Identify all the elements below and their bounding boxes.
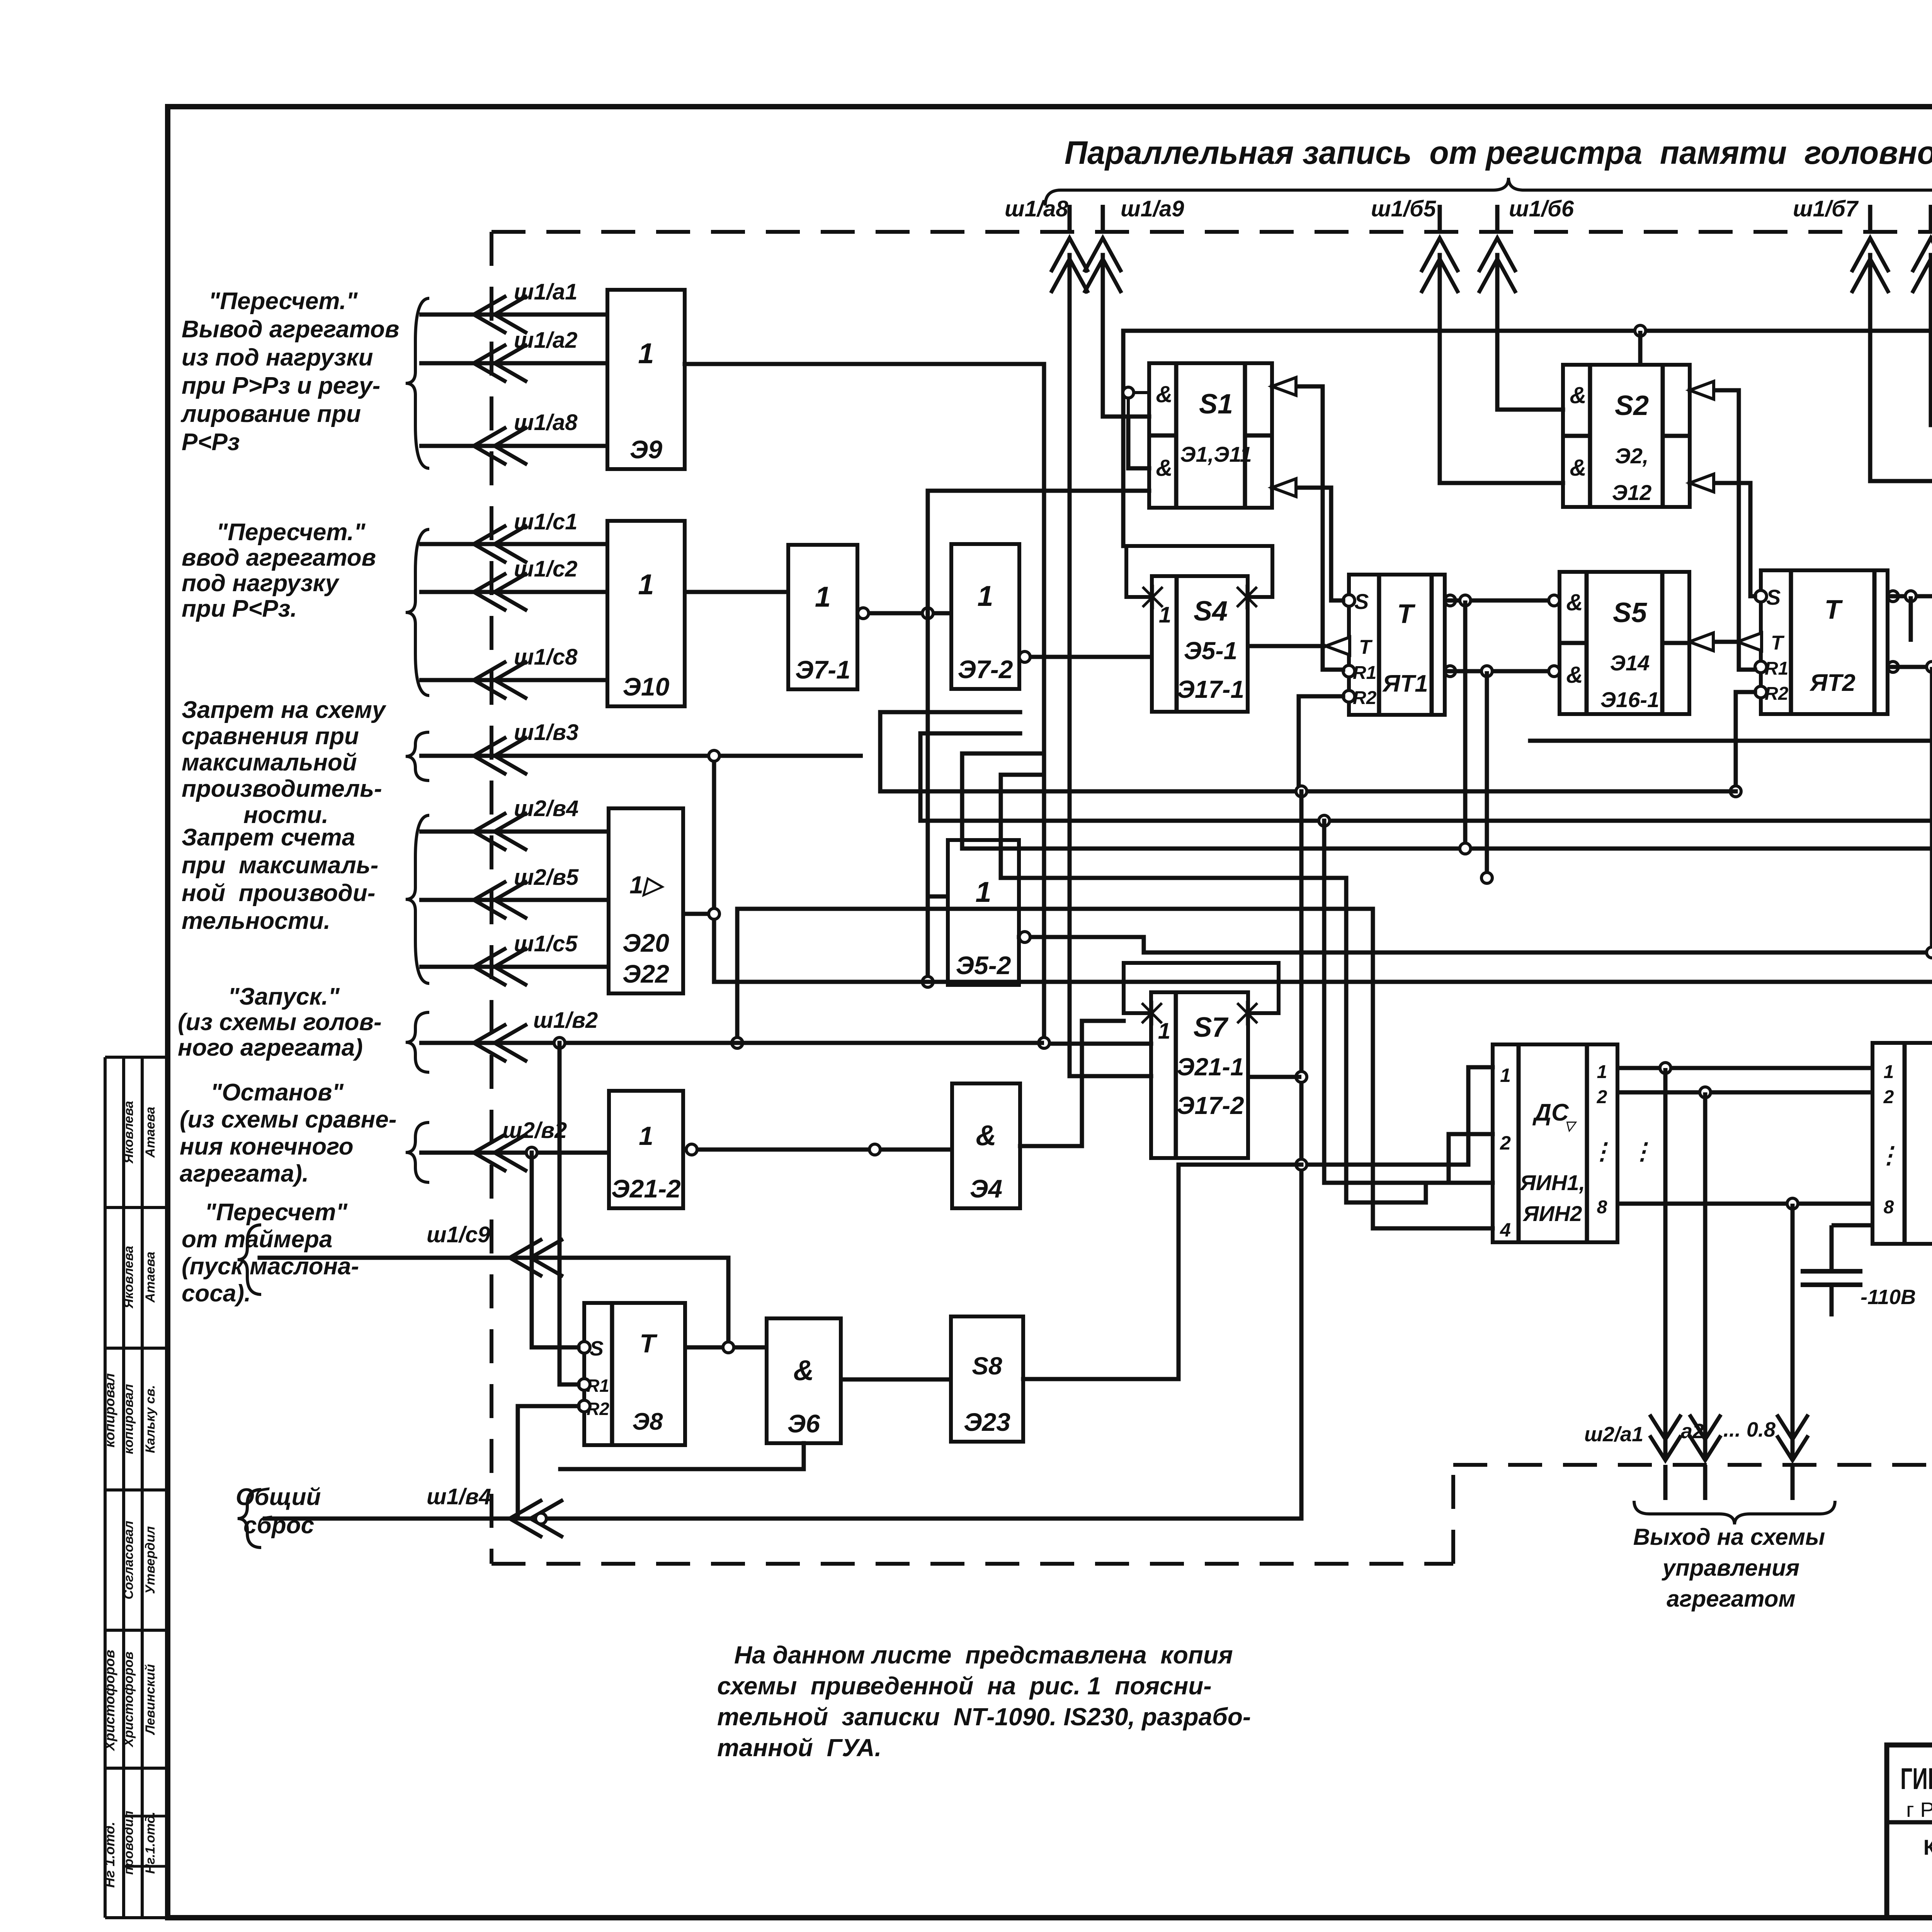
brace group 4 [406, 815, 429, 983]
svg-text:1: 1 [1597, 1062, 1607, 1082]
svg-text:Т: Т [639, 1329, 658, 1358]
logic block Э4 [952, 1083, 1020, 1208]
svg-text:Э6: Э6 [787, 1409, 820, 1438]
logic block Э7-2 [951, 544, 1019, 689]
wire trunk t0 upper right [1530, 739, 1932, 743]
svg-text:&: & [1570, 455, 1586, 481]
svg-text:Т: Т [1397, 599, 1416, 629]
svg-text:ш1/в4: ш1/в4 [427, 1484, 491, 1509]
svg-text:1: 1 [977, 580, 993, 612]
node: Запуск line joins S7 input [1039, 1037, 1049, 1048]
wire: Э9 output to S7 input 1 [685, 364, 1151, 1044]
signature table [104, 1057, 107, 1918]
wire: ш1/б7 into S3 lower AND [1870, 255, 1932, 481]
node Э21-2 output [686, 1144, 697, 1155]
svg-text:Утвердил: Утвердил [143, 1526, 158, 1594]
wire: ш1/а9 into S1 [1103, 255, 1149, 417]
wire: Э20 output [683, 912, 714, 916]
title block frame [1887, 1745, 1932, 1918]
logic block Э20/Э22 [609, 808, 683, 993]
svg-text:копировал: копировал [102, 1373, 117, 1447]
pin nodes S5 [1549, 595, 1560, 606]
wire: ш1/а8 down to S7 input 2 [1070, 255, 1151, 1076]
decoder block ДС (ЯИН1,ЯИН2) [1493, 1044, 1617, 1242]
svg-text:ш2/в5: ш2/в5 [514, 865, 579, 890]
wire: drop to trunk3 [1463, 600, 1468, 849]
svg-text:1: 1 [975, 876, 991, 908]
wire: Запуск branch to Э8 R1 [560, 1043, 578, 1384]
node pin1 [1660, 1063, 1671, 1073]
wire: ДС to counter pin 8 [1617, 1202, 1872, 1206]
svg-text:Э8: Э8 [632, 1408, 663, 1435]
wire: ДС to counter pin 2 [1617, 1090, 1872, 1095]
svg-text:от таймера: от таймера [182, 1226, 332, 1253]
connector arrow ш1/в2 [419, 1041, 1044, 1045]
connector arrow ш1/б6 [1495, 205, 1500, 232]
svg-text:"Пересчет.": "Пересчет." [216, 519, 366, 546]
connector arrow ш1/б8 [1929, 205, 1932, 232]
capacitor -110В [1830, 1225, 1834, 1271]
svg-text:проводил: проводил [121, 1811, 136, 1875]
wire bundle L3 [1346, 878, 1493, 1202]
wire trunk t4 [1001, 775, 1346, 878]
svg-text:Э10: Э10 [623, 672, 670, 701]
wire: Э7-2 output to S4 input [1025, 655, 1152, 659]
node trunk4 [1481, 872, 1492, 883]
wire: ДС to counter pin 1 [1617, 1066, 1872, 1070]
svg-text:максимальной: максимальной [182, 749, 357, 776]
svg-text:"Пересчет.": "Пересчет." [209, 288, 358, 315]
svg-text:агрегатом: агрегатом [1667, 1586, 1796, 1612]
wire: Э21-2 output to Э4 [683, 1148, 952, 1152]
svg-text:Христофоров: Христофоров [121, 1651, 136, 1748]
connector arrow ш1/а8 [419, 444, 607, 448]
svg-text:&: & [1570, 382, 1586, 408]
svg-text:Э7-2: Э7-2 [958, 655, 1013, 684]
svg-text:⋮: ⋮ [1631, 1138, 1654, 1164]
wire: S7 output [1248, 1075, 1301, 1079]
svg-text:S8: S8 [972, 1352, 1002, 1380]
svg-text:тельной записки NТ-1090. IS2: тельной записки NТ-1090. IS230, разрабо- [717, 1703, 1251, 1731]
brace group 2 [406, 529, 429, 696]
svg-text:ш1/б7: ш1/б7 [1793, 196, 1859, 221]
svg-text:из под нагрузки: из под нагрузки [182, 344, 373, 371]
wire: S1 lower return to ЯТ1 S [1272, 488, 1343, 600]
svg-text:(из схемы сравне-: (из схемы сравне- [180, 1106, 396, 1133]
svg-text:ш1/с2: ш1/с2 [514, 556, 577, 582]
wire: Э10 output to Э7-1 [685, 590, 788, 594]
node on ЯТ1 upper output [1460, 595, 1471, 606]
wire: Э5-2 output to trunk6 [1019, 937, 1144, 952]
wire: ш1/б5 into S2 lower AND [1440, 255, 1563, 483]
svg-text:ш1/а9: ш1/а9 [1121, 196, 1184, 221]
svg-text:лирование при: лирование при [180, 401, 361, 427]
connector arrow ш2/в4 [419, 830, 609, 834]
wire: bundle L1 branch to ДС pin 1 [1301, 1067, 1493, 1165]
connector arrow ш1/с8 [419, 678, 607, 682]
svg-text:ЯТ2: ЯТ2 [1809, 670, 1855, 696]
wire: pin8 drop to ш2/а8 [1791, 1204, 1795, 1458]
logic block Э6 [767, 1318, 841, 1443]
svg-text:ввод агрегатов: ввод агрегатов [182, 544, 376, 571]
node at Э7-1 output [858, 608, 869, 619]
brace: выход на схемы [1634, 1501, 1835, 1524]
svg-text:при Р<Рз.: при Р<Рз. [182, 595, 297, 622]
svg-text:ш1/а1: ш1/а1 [514, 279, 577, 304]
wire: riser from node to S1 lower input [928, 491, 1149, 613]
wire: top bus to S4 hat and long run [1123, 331, 1932, 546]
wire: branch to S1 lower AND [1128, 417, 1149, 468]
svg-text:ной производи-: ной производи- [182, 880, 375, 906]
svg-text:ЯИН2: ЯИН2 [1522, 1201, 1582, 1226]
logic block Э10 [607, 521, 685, 706]
logic block Э23 [951, 1316, 1023, 1442]
svg-text:Э7-1: Э7-1 [795, 655, 850, 684]
svg-text:Параллельная запись от регист: Параллельная запись от регистра памяти г… [1065, 134, 1932, 171]
wire: t5 left riser to Запуск line [735, 909, 740, 1043]
svg-text:S: S [1766, 585, 1781, 609]
connector arrow ш1/с2 [419, 590, 607, 594]
svg-text:R2: R2 [1765, 684, 1789, 704]
svg-text:Нг 1.отд.: Нг 1.отд. [102, 1821, 117, 1888]
svg-text:Э4: Э4 [970, 1174, 1002, 1203]
connector arrow ш1/с1 [419, 542, 607, 546]
svg-text:4: 4 [1500, 1219, 1511, 1241]
brace group 3 [406, 732, 429, 781]
node on Запуск line [554, 1037, 565, 1048]
svg-text:ш1/б6: ш1/б6 [1509, 196, 1574, 221]
svg-text:ш2/в2: ш2/в2 [502, 1118, 567, 1143]
svg-text:1: 1 [639, 1121, 653, 1151]
node Э4 output line [869, 1144, 880, 1155]
wire: Останов branch to Э8 S [532, 1153, 578, 1347]
node at Э7-2 output [1019, 651, 1030, 662]
svg-text:-110В: -110В [1861, 1286, 1916, 1309]
svg-text:Атаева: Атаева [143, 1252, 158, 1303]
T flip-flop ЯТ1 [1349, 575, 1445, 715]
svg-text:На данном листе представлена: На данном листе представлена копия [734, 1641, 1233, 1669]
svg-text:Атаева: Атаева [143, 1107, 158, 1158]
brace group 6 [406, 1122, 429, 1182]
svg-text:Кальку св.: Кальку св. [143, 1385, 158, 1453]
node on bus above S2 [1635, 325, 1646, 336]
connector arrow ш1/а9 [1101, 205, 1105, 232]
svg-text:ния конечного: ния конечного [180, 1133, 354, 1160]
svg-text:при Р>Рз и регу-: при Р>Рз и регу- [182, 372, 380, 399]
svg-text:Э14: Э14 [1610, 651, 1650, 675]
wire: S2 lower return to ЯТ2 S [1690, 483, 1755, 596]
wire: drop to trunk4 [1485, 671, 1489, 878]
wire: ЯТ2 outputs to S6 [1888, 591, 1898, 602]
svg-text:ного агрегата): ного агрегата) [178, 1034, 363, 1061]
svg-text:Запрет на схему: Запрет на схему [182, 697, 387, 723]
svg-text:тельности.: тельности. [182, 908, 330, 934]
wire trunk t5 [737, 907, 1373, 911]
wire: Э6 output to Э23 [841, 1378, 951, 1382]
svg-text:&: & [976, 1119, 996, 1151]
selector block S7 (Э21-1,Э17-2) with marker bracket [1151, 992, 1248, 1158]
wire trunk t1 [880, 712, 1736, 791]
connector arrow ш1/с9 [260, 1258, 728, 1342]
wire: Э4 output up to S7 hat [1020, 1021, 1124, 1146]
svg-text:Э5-2: Э5-2 [956, 951, 1011, 980]
node on сброс line [536, 1513, 546, 1524]
wire trunk t6 [1144, 951, 1932, 955]
connector arrow ш1/б5 [1438, 205, 1442, 232]
svg-text:1▷: 1▷ [629, 871, 665, 899]
node trunk1/L1 [1296, 786, 1307, 797]
wire: Общий сброс branch to Э8 R2 [518, 1406, 578, 1519]
svg-text:S5: S5 [1613, 597, 1647, 628]
node on trunk7 [922, 976, 933, 987]
svg-text:S1: S1 [1199, 389, 1233, 420]
svg-text:Э17-1: Э17-1 [1177, 675, 1244, 703]
wire: Запуск line ш1/в2 continue [560, 1041, 1044, 1045]
svg-text:T: T [1771, 632, 1785, 654]
svg-text:ш1/в2: ш1/в2 [533, 1008, 598, 1033]
logic block Э5-2 [948, 840, 1019, 985]
svg-text:Запрет счета: Запрет счета [182, 824, 355, 851]
RS selector block S2 (Э2,Э12) [1563, 365, 1690, 507]
svg-text:&: & [793, 1354, 814, 1386]
brace group 1 [406, 298, 429, 468]
arrow tails below dashed [1663, 1465, 1668, 1500]
svg-text:соса).: соса). [182, 1280, 251, 1307]
svg-text:Э20: Э20 [622, 929, 669, 957]
wire: S5 to ЯТ2 T input [1689, 640, 1738, 644]
connector arrow 0.8 [1778, 1437, 1807, 1460]
node on ш1/в3 line [709, 750, 719, 761]
svg-text:Э1,Э11: Э1,Э11 [1180, 442, 1252, 466]
node trunk3 [1460, 843, 1471, 854]
connector arrow ш1/с5 [419, 965, 609, 969]
logic block Э9 [607, 290, 685, 469]
T flip-flop Э8 [584, 1303, 685, 1445]
svg-text:КОМПРЕССОРНАЯ: КОМПРЕССОРНАЯ [1923, 1835, 1932, 1859]
svg-text:"Останов": "Останов" [211, 1079, 344, 1106]
svg-text:R1: R1 [1353, 663, 1376, 683]
svg-text:ш1/а2: ш1/а2 [514, 328, 577, 353]
wire bundle L4 [1373, 909, 1493, 1228]
node at S1 upper input [1123, 387, 1134, 398]
svg-text:Э2,: Э2, [1615, 444, 1649, 468]
svg-text:S4: S4 [1194, 596, 1228, 627]
svg-text:1: 1 [638, 568, 654, 600]
svg-text:"Запуск.": "Запуск." [228, 983, 340, 1010]
svg-text:Согласовал: Согласовал [121, 1521, 136, 1600]
svg-text:Э5-1: Э5-1 [1184, 637, 1238, 665]
node: drop to trunk6 [1927, 662, 1932, 672]
svg-text:ш1/б5: ш1/б5 [1371, 196, 1436, 221]
wire: Останов to Э21-2 [526, 1147, 537, 1158]
node trunk2 [1319, 815, 1330, 826]
svg-text:8: 8 [1597, 1197, 1607, 1218]
svg-text:1: 1 [1884, 1062, 1894, 1082]
wire trunk t7 [714, 980, 1932, 984]
logic block Э21-2 [609, 1091, 683, 1208]
wire: S1 upper return from ЯТ1 R1 [1272, 386, 1343, 670]
wire: Э6 lower loop [560, 1443, 804, 1469]
svg-text:Яковлева: Яковлева [121, 1246, 136, 1309]
svg-text:T: T [1359, 636, 1373, 658]
wire: ш1/б8 into S3 upper AND [1931, 255, 1932, 425]
wire: ЯТ2 R2 drop to trunk1 [1736, 692, 1755, 791]
wire: ЯТ1 R2 drop to trunk [1299, 696, 1343, 791]
wire: ш1/в3 branch down to Э20 output [712, 756, 716, 982]
connector arrow ш1/а1 [419, 313, 607, 317]
node Э5-2 output [1019, 932, 1030, 942]
brace group 5 [406, 1012, 429, 1072]
wire: pin2 drop to ш2/а2 [1703, 1092, 1708, 1458]
svg-text:Э21-2: Э21-2 [611, 1174, 681, 1203]
svg-text:сброс: сброс [243, 1512, 314, 1539]
title block: organization cell [1887, 1820, 1932, 1825]
node bundle L1 branch [1296, 1159, 1307, 1170]
svg-text:&: & [1566, 662, 1583, 688]
node ЯТ2 R2 on trunk1 [1730, 786, 1741, 797]
wire: S4 output to ЯТ1 T input [1248, 644, 1326, 648]
svg-text:ЯИН1,: ЯИН1, [1519, 1170, 1585, 1195]
RS selector block S1 (Э1,Э11) [1149, 363, 1272, 508]
wire: node down to Э5-2 and trunk [926, 613, 930, 982]
svg-text:ш1/с9: ш1/с9 [427, 1222, 490, 1247]
wire: Э8 output to Э6 [685, 1345, 767, 1350]
svg-text:Э21-1: Э21-1 [1177, 1053, 1244, 1081]
svg-text:сравнения при: сравнения при [182, 723, 359, 750]
connector arrow ш2/а1 [1651, 1437, 1680, 1460]
brace group 7 [238, 1225, 261, 1294]
svg-text:Э12: Э12 [1612, 480, 1652, 505]
svg-text:ЯТ1: ЯТ1 [1382, 670, 1428, 697]
svg-text:Вывод агрегатов: Вывод агрегатов [182, 316, 399, 343]
connector arrow ш2/в5 [419, 898, 609, 902]
svg-text:S: S [1354, 589, 1369, 614]
wire trunk t3 [962, 753, 1932, 849]
selector block S4 (Э5-1,Э17-1) with marker bracket [1152, 576, 1248, 712]
svg-text:1: 1 [815, 581, 831, 613]
connector arrow ш1/в3 [419, 754, 863, 758]
node pin2 [1700, 1087, 1711, 1098]
svg-text:⋮: ⋮ [1877, 1142, 1900, 1168]
svg-text:Р<Рз: Р<Рз [182, 429, 240, 456]
svg-text:"Пересчет": "Пересчет" [205, 1199, 348, 1226]
svg-text:г Ростов-на-Дону 1976г: г Ростов-на-Дону 1976г [1906, 1798, 1932, 1821]
svg-text:S: S [590, 1337, 604, 1360]
svg-text:R1: R1 [1765, 658, 1788, 679]
svg-text:ш1/а8: ш1/а8 [514, 410, 578, 435]
wire: pin1 drop to ш2/а1 [1663, 1068, 1668, 1458]
svg-text:ш1/с1: ш1/с1 [514, 509, 577, 534]
svg-text:Нг.1.отд.: Нг.1.отд. [143, 1811, 158, 1874]
wire: reset riser / bundle L1 vertical [1299, 791, 1304, 1519]
brace under title [1045, 178, 1932, 206]
node Э8 output [723, 1342, 734, 1353]
connector arrow ш1/б7 [1868, 205, 1872, 232]
svg-text:Т: Т [1825, 594, 1843, 624]
connector arrow ш1/а8 [1068, 205, 1072, 232]
svg-text:копировал: копировал [121, 1384, 136, 1454]
wire: Э7-1 output to Э7-2 [857, 611, 951, 616]
wire: S2 upper return from ЯТ2 R1 [1690, 390, 1755, 670]
wire: stub into Э5-2 [928, 895, 948, 899]
svg-text:Э16-1: Э16-1 [1600, 687, 1659, 712]
svg-text:S7: S7 [1193, 1012, 1228, 1043]
node on ЯТ2 output [1905, 591, 1916, 602]
bracket hat of S7 (Э21-1,Э17-2) [1124, 963, 1279, 1013]
wire: Э23 output up to bundle [1023, 1165, 1301, 1379]
wire trunk t2 [920, 733, 1932, 821]
svg-text:а2: а2 [1681, 1420, 1704, 1443]
brace group 8 [238, 1490, 261, 1548]
bracket hat of S4 (Э5-1,Э17-1) [1126, 546, 1272, 597]
connector arrow а2 [1690, 1437, 1720, 1460]
svg-text:(из схемы голов-: (из схемы голов- [178, 1009, 382, 1036]
wire: ш1/б6 into S2 upper AND [1497, 255, 1563, 410]
svg-text:&: & [1156, 381, 1172, 407]
RS selector block S5 (Э14,Э16-1) [1560, 572, 1689, 714]
svg-text:ш1/с8: ш1/с8 [514, 645, 578, 670]
svg-text:R2: R2 [1353, 688, 1377, 708]
svg-text:2: 2 [1883, 1087, 1894, 1107]
svg-text:Яковлева: Яковлева [121, 1101, 136, 1164]
svg-text:управления: управления [1662, 1555, 1799, 1581]
connector arrow ш1/в4 [263, 1517, 1301, 1521]
svg-text:ш1/в3: ш1/в3 [514, 720, 578, 745]
counter interface block [1872, 1043, 1932, 1244]
svg-text:... 0.8: ... 0.8 [1723, 1418, 1776, 1441]
svg-text:Э17-2: Э17-2 [1177, 1092, 1244, 1119]
wire drop into S2 top [1638, 331, 1643, 365]
svg-text:при максималь-: при максималь- [182, 852, 378, 879]
node S7 output joins L1 [1296, 1071, 1307, 1082]
svg-text:ш1/с5: ш1/с5 [514, 931, 578, 956]
dashed schematic boundary [492, 230, 1932, 234]
svg-text:производитель-: производитель- [182, 776, 382, 802]
svg-text:8: 8 [1884, 1197, 1894, 1218]
wire bundle L2 [1324, 821, 1493, 1183]
svg-text:схемы приведенной на рис. 1: схемы приведенной на рис. 1 поясни- [717, 1672, 1212, 1700]
svg-text:Э22: Э22 [622, 959, 669, 988]
node on ЯТ1 lower output [1481, 666, 1492, 677]
svg-text:S2: S2 [1615, 390, 1649, 421]
node trunk6 [1927, 947, 1932, 958]
svg-text:под нагрузку: под нагрузку [182, 570, 340, 597]
svg-text:Выход на схемы: Выход на схемы [1633, 1524, 1825, 1550]
svg-text:Э9: Э9 [630, 435, 662, 464]
node pin8 [1787, 1198, 1798, 1209]
svg-text:Э23: Э23 [964, 1408, 1010, 1436]
T flip-flop ЯТ2 [1761, 570, 1888, 714]
svg-text:ш2/а1: ш2/а1 [1584, 1423, 1643, 1446]
svg-text:2: 2 [1597, 1087, 1607, 1107]
svg-text:ш1/а8: ш1/а8 [1005, 196, 1068, 221]
svg-text:2: 2 [1500, 1132, 1511, 1154]
svg-text:ДС: ДС [1532, 1099, 1569, 1126]
svg-text:ГИПРОСТРОЙДОРМАШ: ГИПРОСТРОЙДОРМАШ [1900, 1762, 1932, 1796]
svg-text:&: & [1156, 455, 1172, 481]
svg-text:агрегата).: агрегата). [180, 1160, 309, 1187]
svg-text:1: 1 [638, 337, 654, 369]
svg-text:⋮: ⋮ [1590, 1138, 1614, 1164]
svg-text:1: 1 [1500, 1065, 1511, 1086]
svg-text:&: & [1566, 589, 1583, 615]
svg-text:Христофоров: Христофоров [102, 1650, 117, 1751]
node Э20 output [709, 908, 719, 919]
node before Э7-2 [922, 608, 933, 619]
node t5 riser [732, 1037, 743, 1048]
svg-text:ш2/в4: ш2/в4 [514, 796, 578, 821]
logic block Э7-1 [788, 545, 857, 689]
